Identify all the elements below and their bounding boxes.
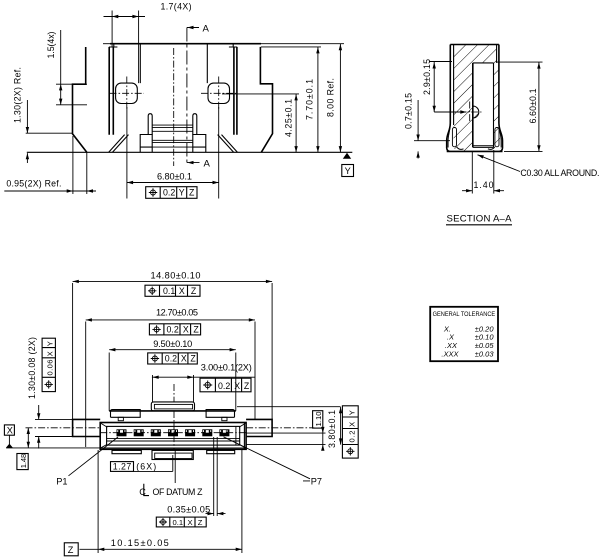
seating reference line [6, 447, 246, 449]
svg-text:1.40: 1.40 [474, 180, 494, 190]
svg-text:0.2: 0.2 [165, 354, 177, 364]
tongue left block [140, 135, 152, 153]
tongue left post [148, 114, 152, 135]
svg-text:12.70±0.05: 12.70±0.05 [156, 307, 198, 317]
front view shell left wall [109, 47, 113, 135]
svg-text:0.35±0.05: 0.35±0.05 [167, 504, 210, 514]
pin row centerline [100, 432, 246, 434]
svg-text:X: X [181, 354, 187, 364]
svg-text:6.80±0.1: 6.80±0.1 [157, 172, 192, 182]
dimension 1.10 boxed [313, 411, 323, 428]
svg-text:0.95(2X) Ref.: 0.95(2X) Ref. [6, 178, 61, 188]
latch dimple [473, 106, 479, 118]
back plate right corner tab [206, 410, 234, 418]
svg-text:14.80±0.10: 14.80±0.10 [151, 271, 201, 281]
section bottom-right curl [495, 128, 499, 147]
wing centerline right [246, 427, 314, 429]
svg-text:GENERAL TOLERANCE: GENERAL TOLERANCE [433, 311, 496, 318]
latch hole right [208, 83, 230, 103]
tongue lower bar [152, 140, 193, 147]
svg-text:0.2: 0.2 [218, 381, 230, 391]
svg-text:Y: Y [345, 166, 351, 176]
pin P2 [134, 429, 144, 436]
svg-text:OF DATUM Z: OF DATUM Z [153, 487, 204, 497]
shell bottom-left corner chamfer [109, 135, 129, 153]
section hatched body right band [494, 63, 501, 149]
tongue upper rails [152, 125, 193, 131]
svg-text:Z: Z [190, 354, 196, 364]
latch hole left centerlines [110, 77, 145, 111]
svg-text:1.5(4x): 1.5(4x) [46, 31, 56, 58]
pin P1 [117, 429, 127, 436]
svg-text:3.80±0.1: 3.80±0.1 [327, 410, 337, 448]
extension lines above bottom view [73, 283, 273, 447]
bottom left tab [112, 450, 141, 453]
svg-text:(6X): (6X) [136, 461, 156, 471]
bottom view centerline [173, 384, 175, 423]
svg-text:X: X [179, 286, 185, 296]
svg-text:Z: Z [193, 325, 199, 335]
left mounting flange [73, 47, 87, 152]
svg-text:1.30(2X) Ref.: 1.30(2X) Ref. [13, 67, 23, 123]
section hatched body left+top [454, 45, 497, 151]
svg-text:SECTION A–A: SECTION A–A [447, 214, 513, 225]
section cavity [472, 63, 474, 147]
back plate left corner tab [111, 410, 141, 418]
rotated FCF 0.2 X Y (3.80) [342, 406, 358, 458]
svg-text:Y: Y [348, 410, 357, 415]
svg-text:1.10: 1.10 [314, 412, 323, 427]
svg-text:1.48: 1.48 [19, 454, 28, 469]
svg-text:0.2: 0.2 [163, 188, 175, 198]
pin P4 [168, 429, 178, 436]
front view fold lines [140, 44, 207, 83]
datum X symbol [4, 425, 14, 435]
svg-text:±0.03: ±0.03 [475, 349, 495, 358]
FCF 0.1 X Z (14.80) [145, 285, 200, 296]
dimension 1.48 boxed [27, 428, 29, 448]
pin P3 [151, 429, 161, 436]
1.30 wing dimension lines [35, 405, 73, 449]
bottom center tab [152, 450, 193, 459]
tongue right block [193, 135, 206, 153]
shell bottom-right corner chamfer [218, 135, 238, 153]
body inner cavity [107, 426, 240, 445]
svg-text:2.9±0.15: 2.9±0.15 [422, 59, 432, 95]
pin P5 [185, 429, 195, 436]
svg-text:Z: Z [189, 188, 195, 198]
datum Y symbol [343, 153, 351, 159]
svg-text:10.15±0.05: 10.15±0.05 [111, 538, 169, 548]
FCF 0.1 X Z (0.35) [156, 517, 206, 527]
svg-text:Y: Y [46, 341, 55, 346]
svg-text:Z: Z [198, 518, 203, 527]
svg-text:X: X [348, 422, 357, 427]
main body outline [100, 423, 246, 450]
svg-text:1.27: 1.27 [113, 461, 132, 471]
svg-text:X: X [7, 425, 13, 435]
svg-text:X: X [183, 325, 189, 335]
centerline of datum Z note [144, 484, 149, 496]
front view vertical centerline [173, 48, 175, 166]
seating plane line [27, 151, 353, 153]
svg-text:P1: P1 [56, 476, 67, 486]
svg-text:A: A [203, 23, 210, 34]
latch hole left [116, 83, 138, 103]
svg-text:X: X [234, 381, 240, 391]
dimension 1.27 (6X) [111, 462, 134, 472]
right mounting flange [260, 47, 272, 152]
svg-text:P7: P7 [311, 476, 322, 486]
svg-text:0.2: 0.2 [348, 431, 357, 443]
rotated FCF 0.06 X Y [42, 338, 55, 391]
front view shell top edge [110, 43, 261, 45]
svg-text:0.1: 0.1 [163, 286, 175, 296]
svg-text:4.25±0.1: 4.25±0.1 [284, 99, 294, 137]
svg-text:6.60±0.1: 6.60±0.1 [528, 88, 538, 123]
datum Z symbol [64, 543, 78, 556]
back plate top edge [109, 410, 236, 412]
FCF 0.2 X Z (9.50) [148, 353, 198, 364]
section inner wall lines [454, 45, 497, 126]
latch hole right centerlines [201, 77, 236, 111]
svg-text:0.2: 0.2 [167, 325, 179, 335]
svg-text:X: X [46, 351, 55, 356]
right side reference lines [237, 407, 340, 445]
svg-text:0.7±0.15: 0.7±0.15 [404, 93, 414, 129]
FCF 0.2 X Z (12.70) [149, 324, 200, 335]
svg-text:C: C [139, 487, 146, 497]
0.35 extension lines [214, 437, 218, 516]
svg-text:3.00±0.1(2X): 3.00±0.1(2X) [201, 363, 252, 373]
right solder wing [246, 419, 272, 436]
svg-text:1.30±0.08 (2X): 1.30±0.08 (2X) [27, 337, 37, 399]
svg-text:7.70±0.1: 7.70±0.1 [305, 79, 315, 120]
top center tab [151, 402, 194, 411]
section bottom-left curl [452, 128, 456, 147]
svg-text:1.7(4X): 1.7(4X) [161, 2, 192, 12]
svg-text:0.06: 0.06 [46, 360, 55, 376]
svg-text:9.50±0.10: 9.50±0.10 [153, 339, 192, 349]
contact row lines [107, 439, 240, 441]
section outer outline [447, 45, 503, 152]
svg-text:.XXX: .XXX [441, 349, 459, 358]
pin P7 [219, 429, 229, 436]
svg-text:8.00 Ref.: 8.00 Ref. [326, 78, 336, 117]
svg-text:C0.30 ALL AROUND.: C0.30 ALL AROUND. [520, 168, 599, 178]
section cutting line A-A [186, 28, 188, 163]
svg-text:Z: Z [191, 286, 197, 296]
tongue right post [193, 114, 197, 135]
pin P6 [202, 429, 212, 436]
svg-text:Y: Y [179, 188, 185, 198]
front view shell right wall [234, 47, 237, 135]
left solder wing [73, 419, 101, 436]
svg-text:0.1: 0.1 [173, 518, 184, 527]
svg-text:A: A [204, 159, 211, 170]
wing centerline left [26, 427, 101, 429]
svg-text:Z: Z [68, 545, 74, 555]
bottom right tab [207, 450, 235, 453]
svg-text:X: X [188, 518, 193, 527]
svg-text:Z: Z [244, 381, 250, 391]
feature control frame for 6.80 [146, 187, 197, 199]
FCF 0.2 X Z (3.00) [200, 378, 251, 392]
